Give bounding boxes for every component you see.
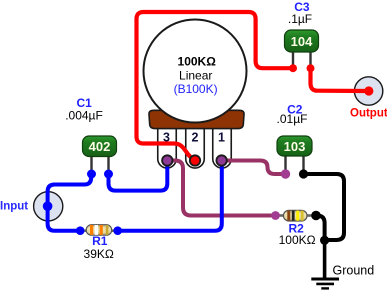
pad C2 right bbox=[299, 169, 308, 178]
svg-text:100KΩ: 100KΩ bbox=[279, 233, 316, 247]
svg-text:104: 104 bbox=[291, 34, 313, 49]
wire red C3 right to output jack bbox=[311, 68, 369, 91]
pad R2 left bbox=[271, 211, 280, 220]
svg-text:Input: Input bbox=[0, 201, 28, 213]
resistor R2 body bbox=[276, 214, 285, 217]
svg-text:3: 3 bbox=[163, 131, 170, 145]
resistor R1 body bbox=[80, 229, 87, 232]
svg-text:39KΩ: 39KΩ bbox=[84, 247, 114, 261]
wire black C2 right to junction bbox=[304, 174, 345, 240]
capacitor C2 body bbox=[284, 156, 286, 174]
svg-text:Ground: Ground bbox=[333, 263, 375, 277]
wire purple pin1 to C2 bbox=[222, 161, 286, 175]
wire purple pin3 to R2 bbox=[168, 161, 276, 216]
wire blue R1 right to pin1 bbox=[118, 161, 222, 231]
pad C3 left bbox=[289, 64, 297, 72]
svg-text:Output: Output bbox=[350, 108, 387, 120]
potentiometer VR1 pin 3 bbox=[158, 127, 177, 168]
pad R1 left bbox=[76, 226, 85, 235]
pad R1 right bbox=[113, 226, 122, 235]
pad C1 left bbox=[87, 170, 96, 179]
output jack J2 bbox=[354, 77, 382, 105]
wire blue C1 left to input jack to R1 left bbox=[48, 174, 92, 231]
capacitor C3 body bbox=[292, 52, 294, 68]
potentiometer VR1 circle bbox=[144, 20, 247, 123]
ground symbol bbox=[311, 279, 339, 288]
input jack center dot bbox=[43, 201, 53, 211]
output jack center dot bbox=[364, 86, 373, 95]
pad C3 right bbox=[307, 64, 315, 72]
pad pin2 bbox=[190, 155, 200, 165]
svg-text:100KΩ: 100KΩ bbox=[178, 54, 217, 68]
potentiometer VR1 body bbox=[149, 110, 244, 128]
svg-text:103: 103 bbox=[284, 139, 306, 154]
pad C2 left bbox=[281, 169, 290, 178]
svg-text:1: 1 bbox=[218, 131, 225, 145]
svg-text:(B100K): (B100K) bbox=[174, 82, 218, 96]
potentiometer VR1 pin 2 bbox=[186, 127, 205, 168]
input jack J1 bbox=[34, 192, 63, 221]
wire black junction to ground bbox=[323, 241, 327, 278]
svg-text:.004µF: .004µF bbox=[65, 109, 103, 123]
pad pin1 bbox=[216, 155, 226, 165]
potentiometer VR1 pin 1 bbox=[213, 127, 232, 168]
pad R2 right bbox=[311, 211, 321, 221]
svg-text:.1µF: .1µF bbox=[288, 12, 312, 26]
pad pin3 bbox=[162, 155, 172, 165]
svg-text:2: 2 bbox=[192, 131, 199, 145]
svg-text:.01µF: .01µF bbox=[277, 112, 308, 126]
junction ground node bbox=[320, 236, 329, 245]
capacitor C1 body bbox=[90, 156, 92, 174]
wire blue C1 right to pin3 bbox=[109, 161, 168, 191]
wire black R2 right to junction bbox=[316, 216, 325, 241]
pad C1 right bbox=[104, 170, 113, 179]
svg-text:402: 402 bbox=[89, 139, 111, 154]
svg-text:Linear: Linear bbox=[179, 69, 212, 83]
wire red pin2 around pot to C3 left bbox=[137, 12, 294, 160]
